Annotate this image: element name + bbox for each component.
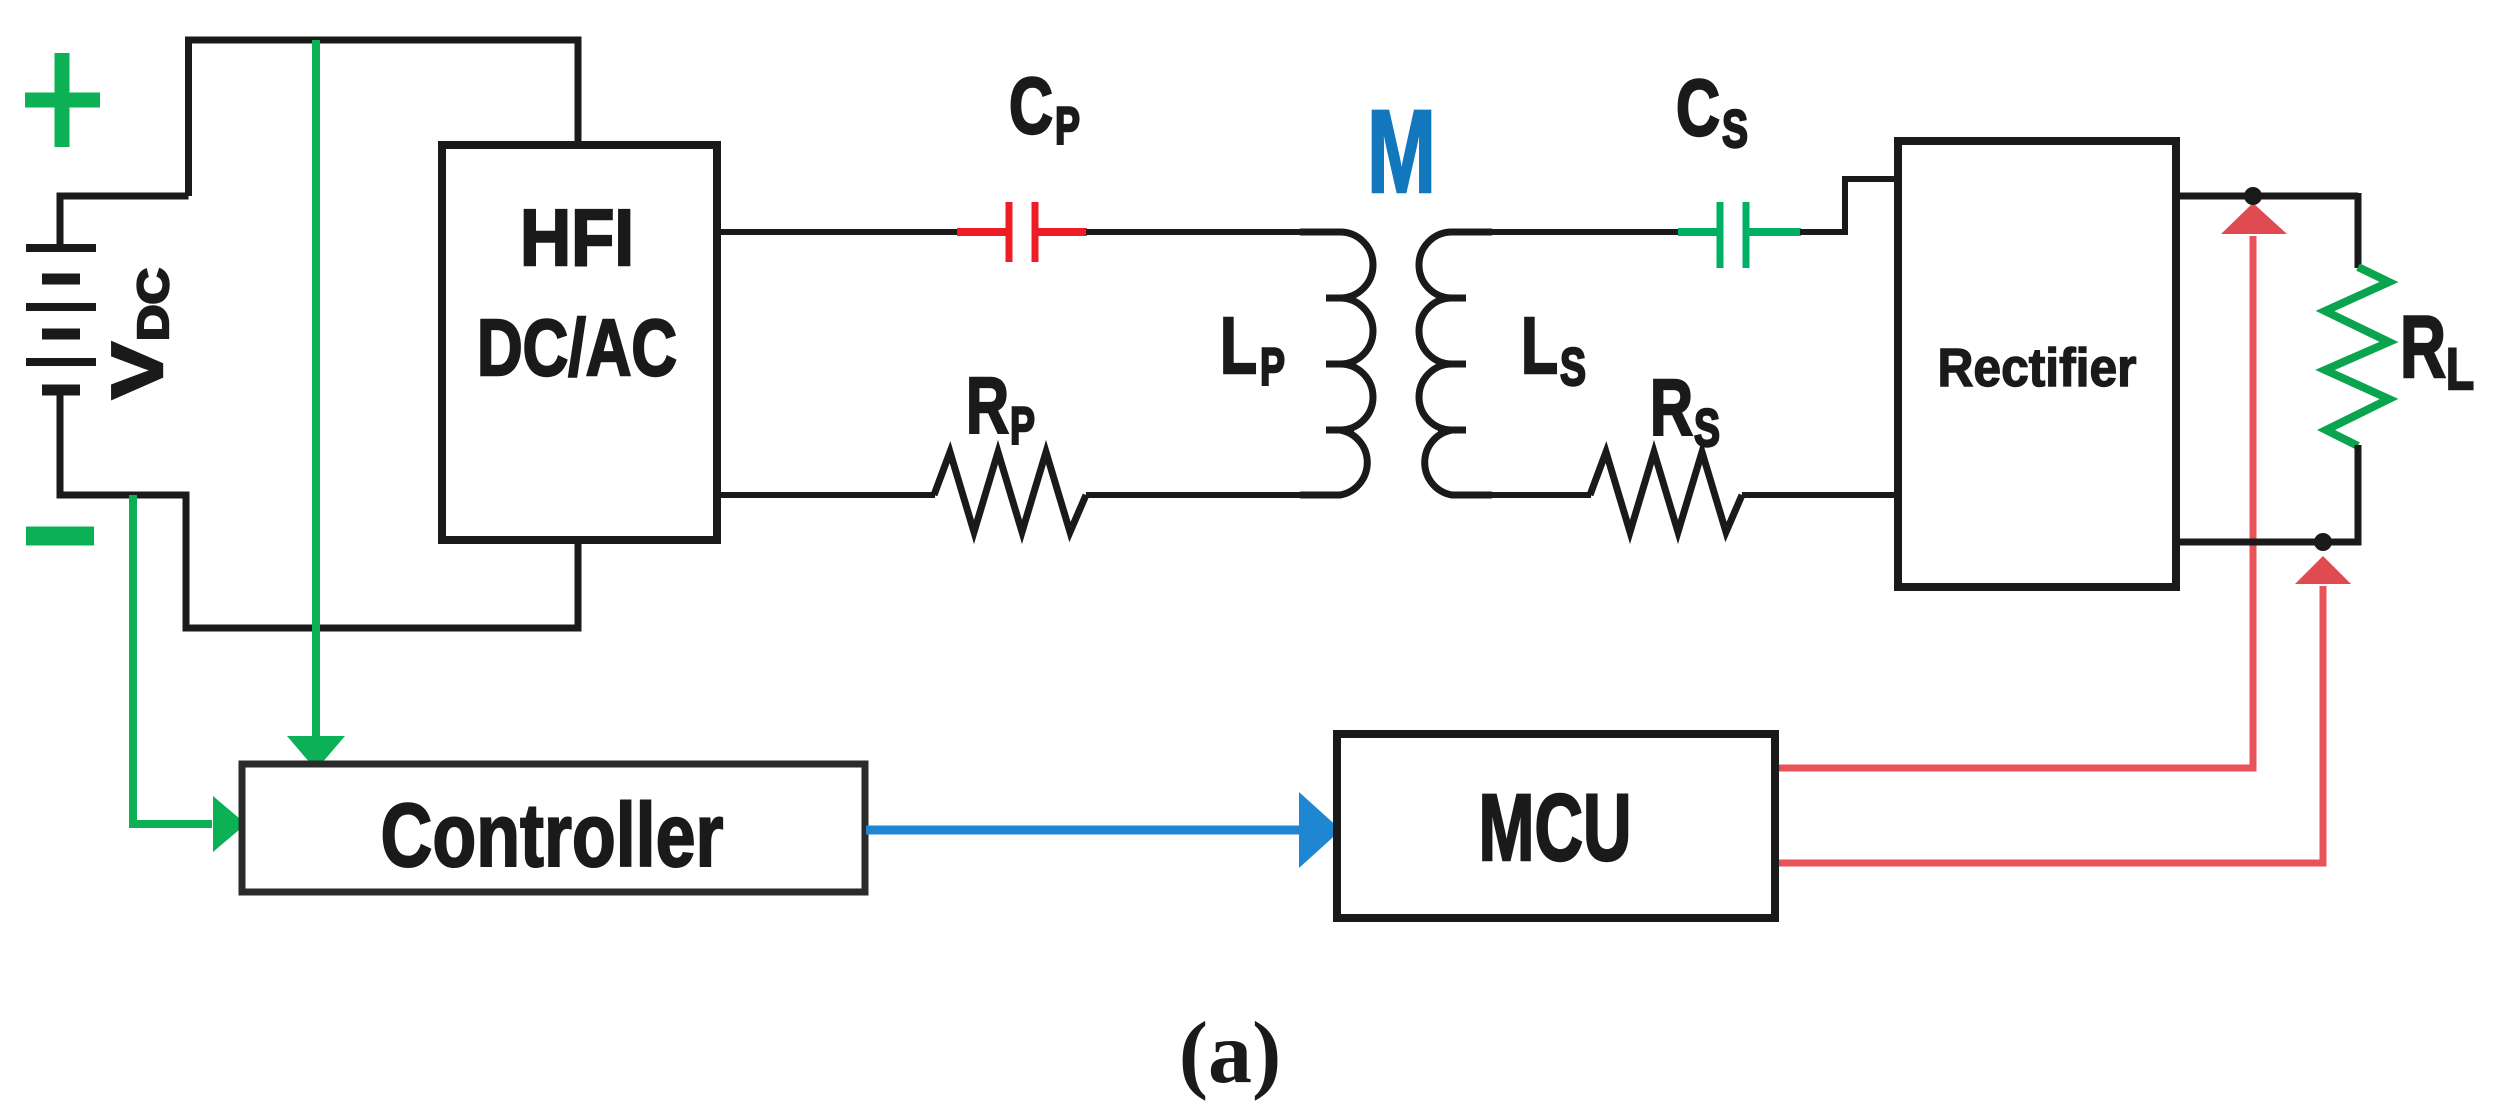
svg-text:M: M (1367, 86, 1436, 218)
svg-text:S: S (1722, 100, 1748, 159)
label CP (1009, 61, 1080, 156)
battery VDC plates (26, 248, 96, 390)
wire: rectifier output top (2176, 193, 2358, 200)
plus terminal symbol (25, 53, 100, 147)
wire: primary top (HFI to Cp) (717, 229, 959, 235)
svg-text:DC/AC: DC/AC (477, 303, 677, 392)
wire: primary bottom (Rp to Lp) (1086, 492, 1341, 498)
svg-text:DC: DC (129, 268, 178, 341)
wire: secondary bottom (Ls to Rs) (1452, 492, 1591, 498)
wire: rectifier output bottom (2176, 539, 2362, 546)
svg-text:(a): (a) (1179, 1005, 1282, 1102)
node junction dot top (2244, 187, 2262, 205)
wire: secondary top jog into rectifier (1800, 179, 1898, 232)
node junction dot bottom (2314, 533, 2332, 551)
block MCU (1337, 734, 1775, 918)
svg-text:P: P (1055, 97, 1080, 156)
wire: secondary top (Ls to Cs) (1452, 229, 1680, 235)
block Controller (242, 764, 865, 892)
svg-text:MCU: MCU (1479, 775, 1632, 881)
label CS (1676, 63, 1748, 159)
green feedback line from battery negative to Controller (with arrowhead) (133, 495, 246, 852)
green feedback line from DC bus to Controller (vertical, with arrowhead) (287, 40, 345, 770)
capacitor CP (red) (957, 202, 1087, 262)
label RP (966, 361, 1035, 456)
svg-text:Rectifier: Rectifier (1938, 338, 2137, 398)
svg-text:L: L (1521, 301, 1558, 390)
svg-text:R: R (966, 361, 1009, 450)
label RS (1650, 363, 1720, 458)
svg-text:R: R (2400, 297, 2446, 396)
inductor LP primary coil (1300, 232, 1373, 495)
svg-text:S: S (1560, 338, 1586, 397)
resistor RS (1590, 452, 1742, 532)
svg-text:V: V (98, 342, 178, 399)
svg-text:P: P (1010, 397, 1035, 456)
block HFI DC/AC inverter (442, 145, 717, 540)
svg-text:C: C (1009, 61, 1053, 150)
wire: output right vertical bottom (2355, 445, 2362, 542)
resistor RL (green load) (2325, 267, 2389, 446)
capacitor CS (green) (1678, 202, 1801, 268)
svg-text:P: P (1260, 338, 1285, 397)
minus terminal symbol (26, 527, 94, 546)
svg-text:S: S (1694, 399, 1720, 458)
svg-text:Controller: Controller (381, 786, 724, 886)
wire: secondary bottom (Rs to rectifier) (1742, 492, 1898, 498)
inductor LS secondary coil (1419, 232, 1492, 495)
label VDC (98, 268, 178, 399)
svg-text:HFI: HFI (520, 193, 634, 282)
block Rectifier (1898, 141, 2176, 587)
wire: output right vertical top (2355, 193, 2362, 268)
wire: primary top (Cp to Lp) (1086, 229, 1341, 235)
label LP (1220, 301, 1285, 397)
label RL (2400, 297, 2474, 402)
red sense line from rectifier output top node to MCU (1775, 203, 2287, 768)
svg-text:L: L (2446, 337, 2474, 402)
wire: primary bottom (HFI to Rp) (717, 492, 935, 498)
svg-text:C: C (1676, 63, 1720, 152)
red sense line from rectifier output bottom node to MCU (1775, 556, 2351, 863)
svg-text:R: R (1650, 363, 1693, 452)
blue control line Controller to MCU (with arrowhead) (866, 792, 1341, 868)
svg-text:L: L (1220, 301, 1257, 390)
label LS (1521, 301, 1586, 397)
resistor RP (934, 452, 1086, 532)
wire: DC bus outer loop (battery to HFI inverter) (60, 40, 578, 628)
